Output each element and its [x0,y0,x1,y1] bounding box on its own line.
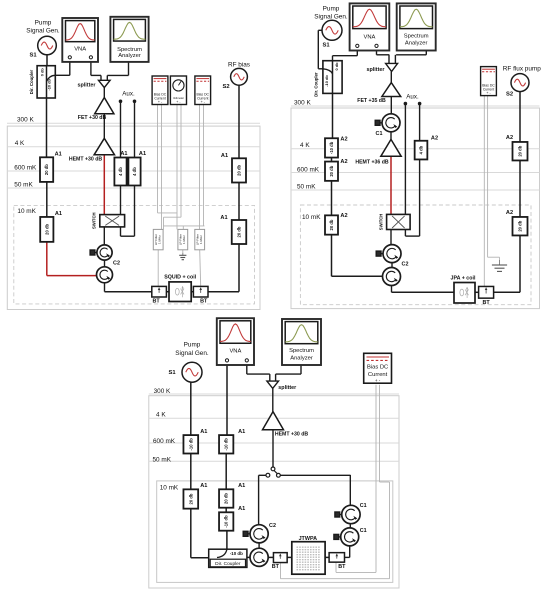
svg-text:20 db: 20 db [518,220,523,231]
svg-text:A1: A1 [200,429,207,435]
svg-text:BT: BT [483,300,491,306]
svg-text:A2: A2 [506,210,513,216]
svg-text:BT: BT [153,299,161,305]
svg-text:Spectrum: Spectrum [404,33,429,39]
svg-text:SWITCH: SWITCH [92,212,97,229]
svg-text:A2: A2 [431,136,438,142]
svg-text:Pump: Pump [184,342,201,349]
svg-text:20 db: 20 db [237,164,242,175]
svg-text:Analyzer: Analyzer [290,355,313,361]
svg-text:A1: A1 [238,506,245,512]
svg-text:HEMT +30 dB: HEMT +30 dB [275,432,309,438]
svg-text:A2: A2 [340,136,347,142]
svg-text:20 db: 20 db [44,164,49,175]
svg-text:Pump: Pump [35,20,52,27]
svg-text:BT: BT [338,564,346,570]
svg-text:C1: C1 [376,131,383,137]
svg-text:4 db: 4 db [132,167,137,176]
svg-text:-10 db: -10 db [188,438,193,451]
svg-text:S1: S1 [29,53,37,59]
svg-text:Signal Gen.: Signal Gen. [26,28,60,35]
svg-text:C1: C1 [360,528,367,534]
svg-text:20 db: 20 db [329,219,334,230]
svg-text:600 mK: 600 mK [14,164,37,171]
svg-text:10 mK: 10 mK [302,214,321,221]
svg-text:1 MHz: 1 MHz [158,235,162,244]
svg-text:RF bias: RF bias [228,62,250,69]
svg-text:A1: A1 [55,151,62,157]
svg-text:-10 db: -10 db [224,515,229,528]
svg-text:A1: A1 [120,151,127,157]
svg-text:A1: A1 [238,429,245,435]
svg-text:600 mK: 600 mK [297,167,320,174]
svg-text:50 mK: 50 mK [153,456,172,463]
svg-text:Dir. Coupler: Dir. Coupler [29,69,34,94]
svg-text:Aux.: Aux. [122,91,135,98]
svg-text:4 K: 4 K [300,142,310,149]
svg-text:-10 db: -10 db [329,141,334,154]
svg-text:50 mK: 50 mK [297,184,316,191]
svg-text:A2: A2 [340,213,347,219]
svg-text:600 mK: 600 mK [153,438,176,445]
svg-text:20 db: 20 db [237,226,242,237]
svg-text:S1: S1 [168,370,176,376]
svg-text:BT: BT [200,299,208,305]
svg-text:4 db: 4 db [419,145,424,154]
svg-text:JPA + coil: JPA + coil [451,276,476,282]
svg-text:10 mK: 10 mK [160,484,179,491]
svg-text:4 K: 4 K [156,412,166,419]
svg-text:HEMT +36 dB: HEMT +36 dB [355,159,389,165]
svg-text:C2: C2 [269,523,276,529]
svg-text:splitter: splitter [78,83,97,89]
svg-text:1 MHz: 1 MHz [182,235,186,244]
svg-text:+ -: + - [375,378,381,383]
svg-text:20 db: 20 db [44,223,49,234]
svg-text:FET +30 dB: FET +30 dB [78,115,107,121]
svg-text:20 db: 20 db [329,165,334,176]
svg-text:Analyzer: Analyzer [405,41,428,47]
svg-text:20 db: 20 db [518,145,523,156]
svg-text:C2: C2 [113,261,120,267]
svg-text:-10 db: -10 db [230,551,243,556]
svg-text:1 MHz: 1 MHz [199,235,203,244]
svg-text:Bias DC: Bias DC [367,365,388,371]
svg-text:-10 db: -10 db [47,78,52,90]
svg-text:SWITCH: SWITCH [378,214,383,231]
svg-text:splitter: splitter [278,385,297,391]
svg-text:20 db: 20 db [188,493,193,504]
svg-text:RF flux pump: RF flux pump [503,66,541,73]
svg-text:0 db: 0 db [334,62,339,71]
svg-text:-10 db: -10 db [224,438,229,451]
svg-text:HEMT +30 dB: HEMT +30 dB [69,157,103,163]
svg-text:0 db: 0 db [40,68,45,77]
svg-text:FET +35 dB: FET +35 dB [357,98,386,104]
svg-text:VNA: VNA [74,47,86,53]
svg-text:Analyzer: Analyzer [118,53,141,59]
svg-text:A1: A1 [200,483,207,489]
svg-text:4 db: 4 db [118,167,123,176]
svg-text:50 mK: 50 mK [14,181,33,188]
svg-text:splitter: splitter [367,67,386,73]
svg-text:Dir. Coupler: Dir. Coupler [215,561,241,567]
svg-text:A2: A2 [340,159,347,165]
svg-text:Pump: Pump [323,6,340,13]
svg-text:C1: C1 [360,503,367,509]
svg-text:Signal Gen.: Signal Gen. [314,14,348,21]
svg-text:A2: A2 [506,135,513,141]
svg-text:S2: S2 [222,84,229,90]
svg-text:S2: S2 [506,92,513,98]
svg-text:4 K: 4 K [15,140,25,147]
svg-text:A1: A1 [221,153,228,159]
svg-text:S1: S1 [322,42,330,48]
svg-text:Spectrum: Spectrum [117,47,142,53]
svg-text:Spectrum: Spectrum [289,348,314,354]
svg-text:Signal Gen.: Signal Gen. [175,350,209,357]
svg-text:10 mK: 10 mK [17,208,36,215]
svg-text:A1: A1 [220,215,227,221]
svg-text:SQUID + coil: SQUID + coil [164,274,196,280]
svg-text:VNA: VNA [229,349,241,355]
svg-text:A1: A1 [55,211,62,217]
svg-text:-10 db: -10 db [324,75,329,87]
svg-text:BT: BT [272,564,280,570]
svg-text:A1: A1 [238,483,245,489]
svg-text:JTWPA: JTWPA [299,536,318,542]
svg-text:300 K: 300 K [294,100,311,107]
svg-text:VNA: VNA [363,35,375,41]
svg-text:20 db: 20 db [224,493,229,504]
svg-text:300 K: 300 K [154,388,171,395]
svg-text:Dir. Coupler: Dir. Coupler [314,72,319,97]
svg-text:300 K: 300 K [17,117,34,124]
svg-text:A1: A1 [139,151,146,157]
svg-text:Aux.: Aux. [406,94,419,101]
svg-text:C2: C2 [402,262,409,268]
